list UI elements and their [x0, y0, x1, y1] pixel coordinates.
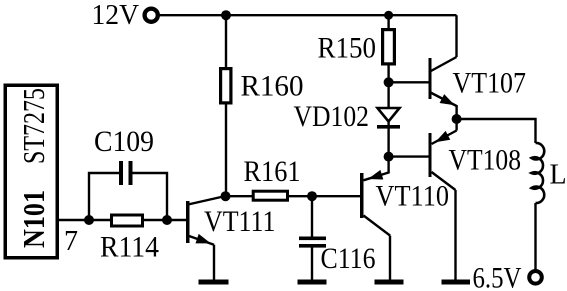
wire C116 top leg — [311, 196, 313, 237]
resistor R114 — [112, 215, 143, 226]
svg-text:C109: C109 — [94, 125, 154, 158]
resistor R161 — [253, 191, 287, 200]
wire R160 column — [225, 15, 227, 196]
wire VT108 base — [389, 155, 429, 157]
inductor L — [532, 143, 545, 203]
wire base row from IC pin 7 to VT111 — [59, 219, 187, 221]
12V terminal — [145, 9, 158, 22]
wire emitter node to L top — [457, 119, 536, 143]
ground under VT110 — [375, 280, 404, 285]
node dot right of R114 — [162, 215, 172, 225]
node dot R161/C116 — [307, 191, 317, 201]
svg-text:C116: C116 — [321, 242, 376, 275]
svg-text:L: L — [550, 160, 567, 191]
wire L bottom to 6.5V terminal — [534, 203, 536, 270]
IC N101 ST7275 — [5, 85, 57, 258]
transistor VT107 — [429, 58, 432, 99]
wire right drop to VT107 collector — [455, 15, 457, 57]
node dot R150/VT107 base — [384, 77, 394, 87]
node dot left of R114 — [84, 215, 94, 225]
svg-text:VD102: VD102 — [294, 100, 370, 133]
svg-text:R161: R161 — [244, 155, 301, 188]
capacitor C116 — [299, 237, 326, 241]
svg-text:VT108: VT108 — [449, 144, 522, 177]
node dot VT107 emitter / VT108 emitter — [452, 114, 462, 124]
wire R150/VD102 column — [387, 15, 389, 156]
ground under VT111 — [199, 280, 229, 285]
svg-text:VT107: VT107 — [453, 67, 527, 100]
svg-text:R114: R114 — [100, 231, 159, 264]
svg-text:ST7275: ST7275 — [16, 88, 51, 164]
ground under C116 — [298, 280, 327, 285]
svg-text:R150: R150 — [318, 32, 377, 65]
transistor VT108 — [429, 133, 432, 177]
svg-text:7: 7 — [64, 226, 78, 257]
capacitor C109 — [119, 161, 123, 185]
transistor VT110 — [360, 173, 364, 218]
diode VD102 — [378, 108, 400, 122]
wire top rail 12V — [158, 14, 457, 16]
svg-text:N101: N101 — [16, 190, 51, 248]
resistor R150 — [383, 30, 395, 64]
wire C109 left leg — [89, 173, 119, 220]
node dot rail/R150 — [384, 11, 393, 20]
svg-text:VT111: VT111 — [204, 205, 276, 238]
6.5V terminal — [529, 271, 542, 284]
svg-text:R160: R160 — [241, 70, 304, 103]
wire C116 bottom leg — [311, 247, 313, 282]
resistor R160 — [221, 69, 231, 103]
wire R161 row — [226, 195, 361, 197]
svg-text:VT110: VT110 — [376, 180, 450, 213]
wire C109 right leg — [129, 173, 168, 220]
ground under VT108 — [442, 280, 471, 285]
svg-text:12V: 12V — [92, 0, 140, 31]
wire VT107 base — [389, 81, 429, 83]
transistor VT111 — [186, 201, 190, 243]
node dot VT111 collector / R160 / R161 — [221, 191, 231, 201]
svg-text:6.5V: 6.5V — [473, 262, 522, 291]
node dot VD102/VT108 base/VT110 emitter — [384, 152, 394, 162]
node dot rail/R160 — [221, 10, 231, 20]
